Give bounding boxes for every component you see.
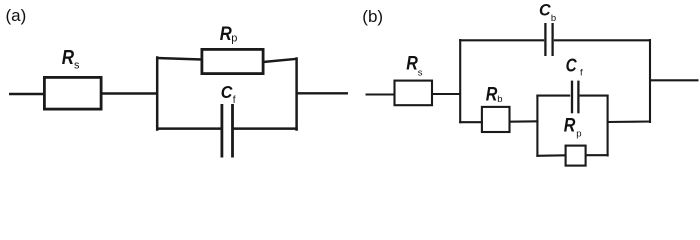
resistor R_p (b)	[564, 115, 586, 165]
svg-text:C: C	[221, 82, 233, 102]
wire left rail (b)	[459, 40, 461, 122]
wire output (a)	[296, 92, 349, 94]
wire top branch left (b)	[459, 39, 544, 41]
wire input (b)	[366, 93, 396, 95]
wire input (a)	[9, 93, 45, 95]
capacitor C_f (a)	[221, 82, 236, 157]
wire left rail (a)	[156, 58, 159, 130]
svg-text:f: f	[580, 68, 583, 79]
wire top branch right (b)	[554, 39, 651, 41]
svg-text:b: b	[551, 13, 556, 24]
wire top branch left (a)	[157, 58, 203, 60]
wire subloop left rail (b)	[536, 96, 538, 156]
wire output (b)	[649, 79, 699, 81]
svg-text:(b): (b)	[362, 7, 383, 26]
capacitor C_f (b)	[566, 56, 583, 114]
wire R_b to subloop (b)	[509, 120, 539, 122]
wire top branch right (a)	[263, 59, 297, 62]
wire right rail (b)	[649, 40, 651, 122]
resistor R_s (b)	[395, 53, 433, 105]
svg-text:R: R	[406, 53, 418, 74]
wire R_s to loop (a)	[101, 92, 158, 94]
svg-text:p: p	[576, 129, 581, 140]
resistor R_s (a)	[44, 47, 101, 109]
wire bottom branch left (a)	[156, 127, 221, 130]
wire lower branch left (b)	[459, 121, 483, 123]
wire right rail (a)	[295, 59, 298, 130]
wire R_s to rail (b)	[431, 93, 461, 95]
wire subloop bottom branch left (b)	[536, 154, 565, 157]
svg-text:C: C	[566, 56, 578, 76]
wire subloop right rail (b)	[607, 96, 609, 156]
svg-text:s: s	[74, 59, 80, 71]
svg-text:R: R	[62, 47, 75, 69]
svg-text:R: R	[486, 85, 498, 106]
resistor R_p (a)	[202, 23, 263, 73]
wire subloop top branch left (b)	[536, 95, 570, 97]
svg-text:R: R	[220, 23, 232, 45]
svg-text:f: f	[233, 95, 236, 106]
wire subloop bottom branch right (b)	[586, 154, 609, 156]
svg-text:s: s	[418, 68, 423, 79]
svg-text:C: C	[539, 1, 551, 20]
svg-text:(a): (a)	[6, 6, 27, 25]
wire bottom branch right (a)	[234, 127, 298, 130]
svg-text:R: R	[564, 115, 576, 136]
label (b)	[362, 7, 383, 26]
wire subloop to right rail connector (b)	[607, 120, 651, 123]
resistor R_b (b)	[482, 85, 510, 133]
svg-text:b: b	[497, 94, 502, 105]
label (a)	[6, 6, 27, 25]
svg-text:p: p	[231, 32, 237, 44]
wire subloop top branch right (b)	[580, 95, 609, 97]
capacitor C_b (b)	[539, 1, 556, 57]
